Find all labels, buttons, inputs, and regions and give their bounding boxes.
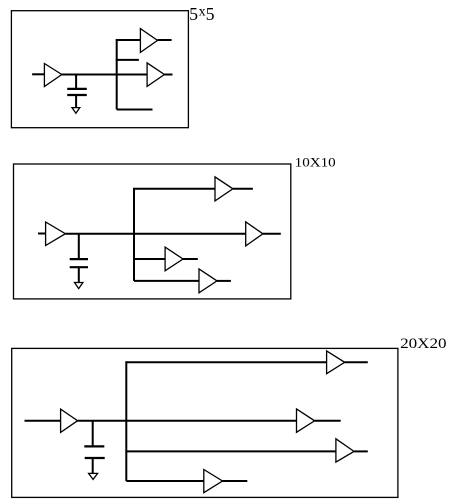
buffer U13: [204, 470, 223, 493]
wire: U5 output: [233, 188, 253, 190]
wire: U8 output: [217, 280, 231, 282]
wire: third branch to buffer U7: [133, 258, 165, 260]
box: 10x10 schematic outline: [14, 164, 291, 299]
buffer U8: [199, 269, 217, 293]
wire: bottom branch to buffer U8: [134, 280, 199, 282]
svg-text:20X20: 20X20: [400, 336, 447, 352]
svg-text:5: 5: [189, 4, 198, 24]
wire: trunk (10x10): [133, 188, 135, 281]
wire: U9 output through node to buffer U11: [78, 420, 297, 422]
wire: U13 output: [223, 480, 248, 482]
wire: U2 output: [158, 39, 172, 41]
svg-text:x: x: [199, 4, 206, 19]
ground (10x10): [75, 283, 83, 289]
wire: top branch to buffer U2: [116, 39, 141, 41]
wire: mid stub branch: [116, 59, 139, 61]
wire: U12 output: [354, 450, 368, 452]
ground (20x20): [89, 473, 98, 479]
svg-text:10X10: 10X10: [295, 154, 336, 169]
buffer U7: [165, 247, 183, 271]
wire: U11 output: [315, 420, 341, 422]
buffer U11: [297, 409, 315, 432]
wire: U10 output: [345, 361, 368, 363]
wire: U7 output: [183, 258, 198, 260]
buffer U10: [327, 351, 345, 374]
wire: third branch to buffer U12: [125, 450, 336, 452]
buffer U2: [140, 29, 157, 53]
ground (5x5): [72, 108, 80, 114]
buffer U3: [147, 63, 164, 87]
capacitor C3: [84, 421, 104, 474]
wire: U3 output: [164, 74, 172, 76]
wire: top branch to buffer U10: [125, 361, 326, 363]
buffer U5: [215, 177, 233, 201]
wire: input to buffer U4: [38, 233, 46, 235]
wire: input to buffer U9: [25, 420, 61, 422]
buffer U4: [46, 222, 66, 246]
box: 20x20 schematic outline: [12, 348, 398, 497]
wire: top branch to buffer U5: [133, 188, 215, 190]
box: 5x5 schematic outline: [11, 11, 188, 128]
buffer U12: [336, 439, 354, 462]
buffer U9: [61, 409, 78, 432]
svg-text:5: 5: [206, 4, 215, 24]
label 5x5: [189, 4, 215, 24]
wire: trunk (5x5): [116, 39, 118, 109]
wire: U1 output through node to buffer U3: [62, 74, 147, 76]
wire: U4 output through node to buffer U6: [65, 233, 245, 235]
wire: U6 output: [263, 233, 281, 235]
wire: bottom stub branch: [117, 109, 153, 111]
capacitor C1: [67, 75, 87, 108]
buffer U6: [246, 222, 263, 246]
wire: trunk (20x20): [125, 361, 127, 481]
capacitor C2: [70, 234, 88, 283]
buffer U1: [44, 64, 61, 87]
wire: input to buffer U1: [32, 73, 44, 75]
wire: bottom branch to buffer U13: [126, 480, 204, 482]
